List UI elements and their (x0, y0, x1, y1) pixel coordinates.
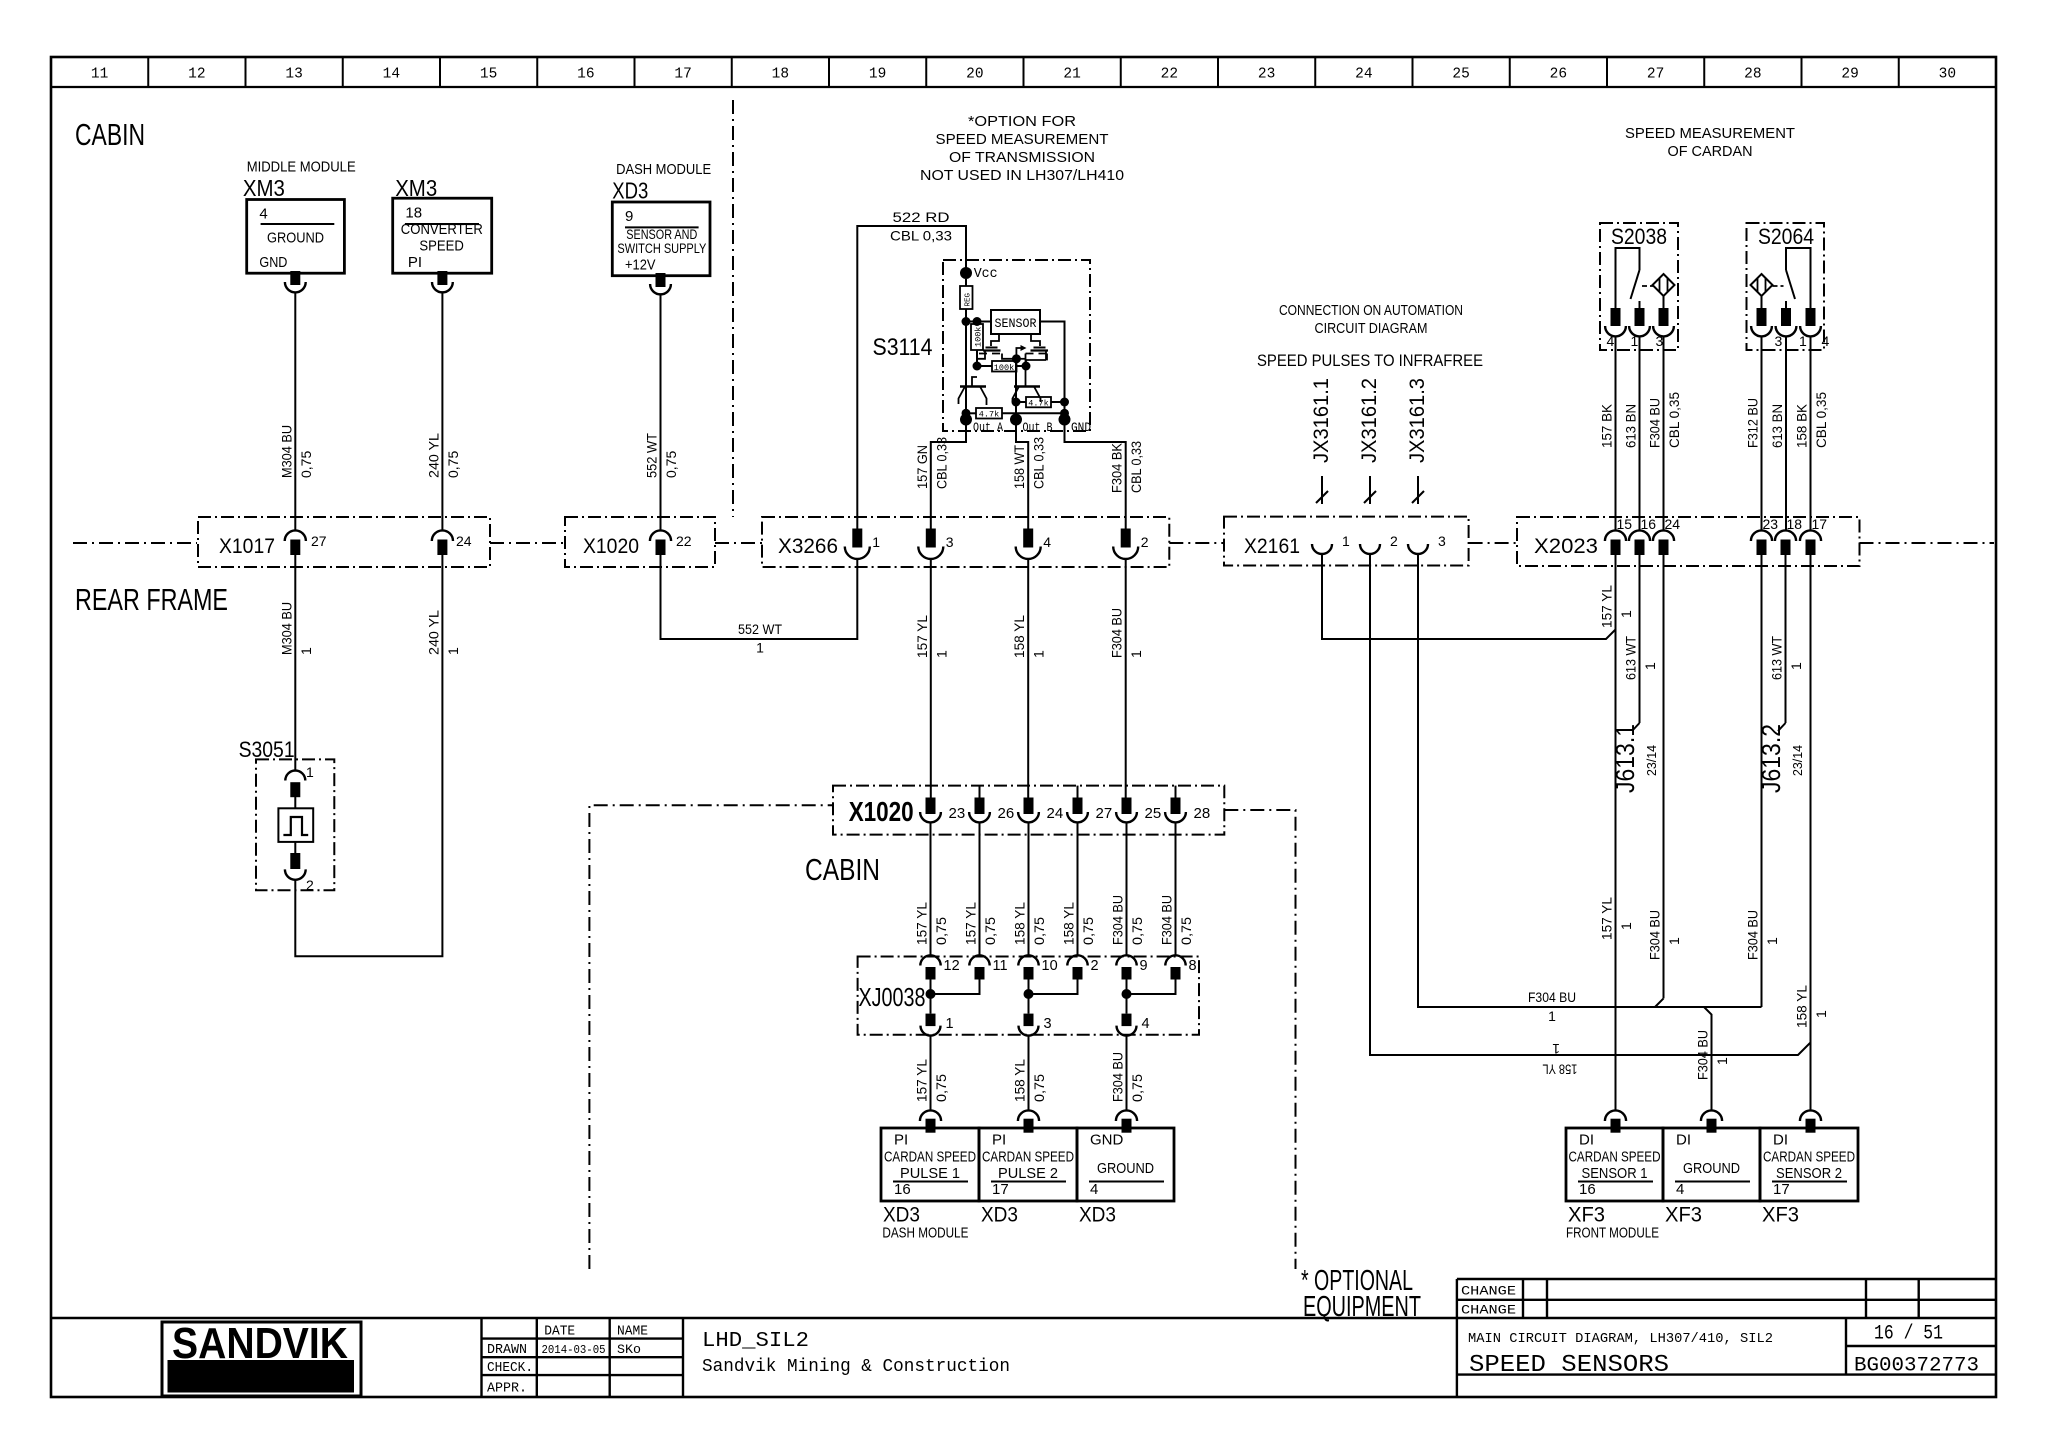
svg-text:F304 BU: F304 BU (1110, 895, 1126, 945)
svg-text:21: 21 (1063, 67, 1080, 83)
pin XJ0038.2 (1067, 955, 1098, 979)
svg-text:XJ0038: XJ0038 (859, 982, 926, 1012)
pin XF3.4 (1701, 1110, 1722, 1121)
svg-text:XD3: XD3 (1079, 1204, 1116, 1227)
svg-text:CBL 0,33: CBL 0,33 (1031, 437, 1047, 489)
svg-text:Out B: Out B (1023, 420, 1053, 435)
svg-text:613 WT: 613 WT (1623, 636, 1639, 680)
svg-text:PI: PI (992, 1132, 1006, 1149)
svg-text:17: 17 (674, 67, 691, 83)
svg-text:SPEED MEASUREMENT: SPEED MEASUREMENT (936, 131, 1109, 148)
svg-text:11: 11 (91, 67, 108, 83)
svg-text:100k: 100k (994, 363, 1014, 373)
svg-text:24: 24 (1665, 516, 1681, 532)
junction XJ0038 bus 12-11 (926, 980, 980, 1014)
svg-text:1: 1 (298, 647, 314, 655)
pin XJ0038.3 (1019, 1014, 1052, 1036)
wire F304 BU 0,75 (X1020 to XJ0038) (1159, 822, 1195, 955)
svg-text:157 YL: 157 YL (914, 902, 930, 945)
svg-text:PULSE 1: PULSE 1 (900, 1165, 960, 1182)
svg-text:F304 BK: F304 BK (1109, 442, 1125, 493)
svg-text:1: 1 (1714, 1057, 1730, 1065)
svg-text:26: 26 (1550, 67, 1567, 83)
svg-text:25: 25 (1452, 67, 1469, 83)
svg-text:SPEED SENSORS: SPEED SENSORS (1469, 1352, 1669, 1379)
svg-text:SWITCH SUPPLY: SWITCH SUPPLY (617, 241, 706, 256)
module XF3 ground (1663, 1128, 1760, 1227)
module XD3 cardan speed pulse 2 (979, 1128, 1077, 1227)
svg-text:240 YL: 240 YL (425, 433, 441, 478)
pin X2161.3 (1408, 533, 1446, 554)
svg-text:158 WT: 158 WT (1011, 445, 1027, 489)
svg-text:SENSOR 2: SENSOR 2 (1776, 1165, 1842, 1182)
svg-text:0,75: 0,75 (1080, 917, 1096, 945)
svg-text:XD3: XD3 (883, 1204, 920, 1227)
module XD3 ground (1077, 1128, 1174, 1227)
svg-text:613 BN: 613 BN (1623, 404, 1639, 448)
svg-text:27: 27 (311, 533, 327, 549)
svg-text:1: 1 (1642, 662, 1658, 670)
svg-text:3: 3 (1044, 1016, 1052, 1032)
svg-text:0,75: 0,75 (445, 451, 461, 478)
svg-text:JX3161.2: JX3161.2 (1358, 378, 1381, 463)
pin S2038.4 (1605, 308, 1626, 349)
svg-text:SPEED MEASUREMENT: SPEED MEASUREMENT (1625, 125, 1795, 142)
svg-text:16: 16 (577, 67, 594, 83)
pin X1020.26 (969, 786, 1014, 823)
svg-text:25: 25 (1145, 805, 1162, 822)
pin X1020.24 (1018, 798, 1063, 823)
svg-text:4: 4 (1822, 333, 1830, 349)
svg-text:LHD_SIL2: LHD_SIL2 (702, 1330, 809, 1353)
svg-text:FRONT MODULE: FRONT MODULE (1566, 1226, 1659, 1242)
wire 240 YL 1 (S3051.2 to X1017.24) (295, 555, 461, 957)
wire 522 RD CBL 0,33 (X3266.1 to S3114 Vcc) (857, 209, 966, 529)
note optional equipment (1301, 1265, 1421, 1323)
switch S2064 contact (1773, 248, 1811, 308)
svg-text:DRAWN: DRAWN (487, 1343, 527, 1358)
connector X2161 (1224, 517, 1469, 566)
pin S2038.3 (1653, 308, 1674, 349)
svg-text:J613.2: J613.2 (1756, 724, 1786, 793)
svg-text:DASH MODULE: DASH MODULE (616, 162, 711, 178)
wire 613 BN (S2038.1 to X2023.16) (1623, 336, 1640, 530)
pin XJ0038.10 (1018, 955, 1057, 979)
svg-text:22: 22 (676, 533, 692, 549)
svg-text:CBL 0,35: CBL 0,35 (1813, 392, 1829, 448)
svg-text:30: 30 (1939, 67, 1956, 83)
wire M304 BU 0,75 (XM3.4 to X1017.27) (294, 292, 296, 530)
svg-text:SPEED: SPEED (419, 237, 464, 254)
pin X1017.27 (285, 530, 327, 555)
pin XD3.16 (920, 1110, 941, 1121)
sensor S3114 outline (873, 260, 1091, 431)
pin X2023.17 (1800, 516, 1827, 555)
svg-text:157 BK: 157 BK (1599, 403, 1615, 448)
pin X2023.18 (1775, 516, 1802, 555)
svg-text:0,75: 0,75 (1178, 917, 1194, 945)
svg-text:3: 3 (1656, 333, 1664, 349)
svg-text:613 WT: 613 WT (1769, 636, 1785, 680)
svg-text:XF3: XF3 (1568, 1204, 1605, 1227)
svg-text:GND: GND (259, 254, 287, 271)
pin XM3.4 (290, 271, 300, 285)
svg-text:DATE: DATE (544, 1325, 575, 1340)
svg-text:158 YL: 158 YL (1061, 902, 1077, 945)
svg-text:SENSOR 1: SENSOR 1 (1582, 1165, 1648, 1182)
note speed measurement of cardan (1625, 125, 1795, 160)
pin X2023.23 (1751, 516, 1778, 555)
svg-text:GROUND: GROUND (1097, 1160, 1154, 1177)
connector XJ0038 (858, 957, 1199, 1035)
svg-text:DASH MODULE: DASH MODULE (882, 1226, 968, 1242)
wire 158 YL 1 (X3266.4 to X1020.24) (1011, 558, 1047, 798)
svg-text:CBL 0,33: CBL 0,33 (1128, 441, 1144, 493)
svg-text:24: 24 (1047, 805, 1064, 822)
svg-text:S3051: S3051 (239, 737, 295, 762)
svg-text:DI: DI (1579, 1132, 1594, 1149)
pin XJ0038.9 (1116, 955, 1147, 979)
svg-text:1: 1 (1548, 1008, 1556, 1024)
svg-text:0,75: 0,75 (933, 1074, 949, 1102)
svg-text:15: 15 (1617, 516, 1633, 532)
svg-text:14: 14 (383, 67, 400, 83)
svg-text:F304 BU: F304 BU (1159, 895, 1175, 945)
svg-text:23/14: 23/14 (1644, 745, 1659, 776)
svg-text:F304 BU: F304 BU (1647, 398, 1663, 448)
wire F304 BK CBL 0,33 (GND to X3266.2) (1065, 420, 1145, 529)
svg-text:JX3161.1: JX3161.1 (1310, 378, 1333, 463)
pin XD3.9 (656, 273, 666, 287)
wire F304 BU CBL 0,35 (S2038.3 to X2023.24) (1647, 336, 1683, 530)
svg-text:18: 18 (405, 204, 422, 221)
pin S2064.4 (1800, 308, 1829, 349)
svg-text:0,75: 0,75 (982, 917, 998, 945)
svg-text:F304 BU: F304 BU (1647, 910, 1663, 960)
pin XF3.16 (1605, 1110, 1626, 1121)
transistor Q2 gate (right FET) (1031, 334, 1049, 360)
net JX3161.2 stub (1358, 378, 1381, 504)
wire 158 WT CBL 0,33 (Out B to X3266.4) (1011, 420, 1047, 529)
node GND (1059, 398, 1092, 435)
svg-text:SENSOR: SENSOR (995, 316, 1037, 331)
pin X1020.28 (1165, 786, 1210, 823)
svg-text:F304 BU: F304 BU (1745, 910, 1761, 960)
wire F304 BU 1 (X3266.2 to X1020.25) (1109, 558, 1145, 798)
svg-text:10: 10 (1042, 958, 1058, 974)
sensor S3051 (239, 737, 335, 890)
wire 157 BK (S2038.4 to X2023.15) (1599, 336, 1616, 530)
svg-text:9: 9 (625, 208, 633, 225)
svg-text:CARDAN SPEED: CARDAN SPEED (1763, 1148, 1855, 1165)
svg-text:DI: DI (1773, 1132, 1788, 1149)
net JX3161.3 stub (1406, 378, 1429, 504)
pin X1020.25 (1116, 798, 1161, 823)
svg-text:XM3: XM3 (243, 175, 285, 201)
svg-text:4.7k: 4.7k (1028, 399, 1048, 409)
wire 158 YL 0,75 (X1020 to XJ0038) (1061, 822, 1097, 955)
svg-text:F304 BU: F304 BU (1109, 608, 1125, 658)
pin XM3.18 (437, 271, 447, 285)
wire 158 BK CBL 0,35 (S2064.4 to X2023.17) (1794, 336, 1830, 530)
svg-text:13: 13 (285, 67, 302, 83)
sensor S2064 inductive element (1751, 274, 1773, 308)
svg-text:23/14: 23/14 (1790, 745, 1805, 776)
wire 158 YL 0,75 (X1020 to XJ0038) (1012, 822, 1048, 955)
pin XJ0038.8 (1165, 955, 1196, 979)
wire 158 YL 0,75 (XJ0038 to XD3) (1012, 1036, 1048, 1111)
svg-text:23: 23 (1258, 67, 1275, 83)
svg-text:522 RD: 522 RD (893, 209, 950, 225)
connector X1020 (cabin top row) (565, 517, 715, 567)
pin XJ0038.4 (1117, 1014, 1150, 1036)
svg-text:CABIN: CABIN (805, 852, 880, 887)
svg-text:158 YL: 158 YL (1011, 615, 1027, 658)
svg-text:SKo: SKo (617, 1342, 641, 1357)
svg-text:CARDAN SPEED: CARDAN SPEED (1569, 1148, 1661, 1165)
svg-text:MIDDLE MODULE: MIDDLE MODULE (247, 160, 356, 176)
svg-text:M304 BU: M304 BU (278, 425, 294, 478)
svg-text:157 YL: 157 YL (914, 615, 930, 658)
module XF3 cardan speed sensor 1 (1566, 1128, 1663, 1227)
pin S2064.3 (1751, 308, 1782, 349)
svg-text:1: 1 (933, 650, 949, 658)
svg-text:CABIN: CABIN (75, 117, 145, 152)
resistor 100k feedback (977, 360, 1046, 373)
svg-text:X2161: X2161 (1244, 535, 1300, 558)
wire 157 YL 0,75 (X1020 to XJ0038) (914, 822, 950, 955)
svg-text:CBL 0,35: CBL 0,35 (1666, 392, 1682, 448)
svg-text:Vcc: Vcc (974, 266, 998, 282)
transistor Q3 (out A) (959, 377, 987, 405)
pin XJ0038.12 (920, 955, 959, 979)
svg-text:CHANGE: CHANGE (1461, 1303, 1516, 1318)
svg-text:1: 1 (946, 1016, 954, 1032)
svg-text:23: 23 (949, 805, 966, 822)
boundary cabin lower-left chain line (589, 805, 833, 1269)
svg-text:1: 1 (1552, 1041, 1560, 1057)
svg-text:X1017: X1017 (219, 535, 275, 558)
node Out B (1010, 360, 1053, 436)
wire 613 BN (S2064.1 to X2023.18) (1769, 336, 1786, 530)
logo SANDVIK (162, 1319, 361, 1396)
svg-text:157 YL: 157 YL (963, 902, 979, 945)
svg-text:28: 28 (1744, 67, 1761, 83)
svg-text:0,75: 0,75 (933, 917, 949, 945)
wire F304 BU 1 (X2161.3 ground rail) (1418, 554, 1762, 1024)
boundary cabin/optional vertical chain line (732, 100, 734, 517)
svg-text:NOT USED IN LH307/LH410: NOT USED IN LH307/LH410 (920, 167, 1124, 184)
svg-text:REAR FRAME: REAR FRAME (75, 582, 228, 617)
pin X2161.1 (1312, 533, 1350, 554)
boundary chain line X2023 to frame (1860, 542, 1995, 544)
svg-text:EQUIPMENT: EQUIPMENT (1303, 1291, 1421, 1323)
svg-text:CHANGE: CHANGE (1461, 1284, 1516, 1299)
svg-text:27: 27 (1647, 67, 1664, 83)
svg-text:GND: GND (1071, 420, 1091, 435)
svg-text:1: 1 (1128, 650, 1144, 658)
svg-text:1: 1 (756, 640, 764, 656)
svg-text:DI: DI (1676, 1132, 1691, 1149)
boundary chain line X1017 to X1020 (490, 542, 565, 544)
svg-text:+12V: +12V (625, 256, 656, 273)
svg-text:1: 1 (1813, 1010, 1829, 1018)
wire 613 WT 1 J613.1 stub (X2023.16) (1610, 555, 1659, 794)
svg-text:157 YL: 157 YL (914, 1059, 930, 1102)
svg-text:PI: PI (408, 254, 422, 271)
svg-text:613 BN: 613 BN (1769, 404, 1785, 448)
svg-text:9: 9 (1140, 958, 1148, 974)
svg-text:PI: PI (894, 1132, 908, 1149)
svg-text:GROUND: GROUND (1683, 1160, 1740, 1177)
svg-text:4: 4 (1607, 333, 1615, 349)
svg-text:19: 19 (869, 67, 886, 83)
svg-text:F304 BU: F304 BU (1110, 1052, 1126, 1102)
svg-text:X3266: X3266 (778, 535, 838, 558)
pin XF3.17 (1800, 1110, 1821, 1121)
wire 157 YL 1 (X2161.1 merge to X2023.15 / XF3 sensor1) (1322, 554, 1634, 1110)
svg-text:GROUND: GROUND (267, 230, 324, 247)
svg-text:S3114: S3114 (873, 334, 933, 361)
svg-text:157 YL: 157 YL (1599, 585, 1615, 628)
sensor S2038 (1600, 223, 1678, 350)
svg-text:1: 1 (1031, 650, 1047, 658)
pin X1017.24 (432, 530, 472, 555)
pin X2161.2 (1360, 533, 1398, 554)
wire 552 WT 1 (X1020.22 to X3266.1) (661, 555, 858, 656)
svg-text:4: 4 (259, 206, 267, 223)
pin X3266.3 (918, 529, 954, 559)
svg-text:OF TRANSMISSION: OF TRANSMISSION (949, 149, 1095, 166)
svg-text:OF CARDAN: OF CARDAN (1668, 143, 1753, 160)
svg-text:CHECK.: CHECK. (487, 1361, 533, 1376)
svg-text:2: 2 (306, 877, 314, 893)
svg-text:1: 1 (1342, 533, 1350, 549)
svg-text:20: 20 (966, 67, 983, 83)
wire F304 BU 0,75 (XJ0038 to XD3) (1110, 1036, 1146, 1111)
svg-text:Sandvik Mining & Construction: Sandvik Mining & Construction (702, 1357, 1010, 1377)
svg-text:F304 BU: F304 BU (1695, 1030, 1711, 1080)
svg-text:XF3: XF3 (1762, 1204, 1799, 1227)
node Vcc (960, 266, 998, 282)
boundary chain line X1020 to X3266 (715, 542, 762, 544)
svg-text:Out A: Out A (973, 420, 1003, 435)
pin X2023.15 (1605, 516, 1632, 555)
svg-text:0,75: 0,75 (1031, 917, 1047, 945)
svg-text:24: 24 (456, 533, 472, 549)
svg-text:158 YL: 158 YL (1012, 1059, 1028, 1102)
boundary cabin lower-right chain line (optional equipment) (1224, 810, 1295, 1269)
wire M304 BU 1 (X1017.27 to S3051.1) (278, 555, 314, 770)
svg-text:11: 11 (993, 958, 1008, 974)
pin X2023.24 (1653, 516, 1680, 555)
svg-text:3: 3 (1438, 533, 1446, 549)
wire 157 YL 1 (X3266.3 to X1020.23) (914, 558, 950, 798)
svg-text:2: 2 (1390, 533, 1398, 549)
junction XJ0038 bus 10-2 (1024, 980, 1078, 1014)
connector X1017 (198, 517, 490, 567)
svg-text:157 YL: 157 YL (1599, 897, 1615, 940)
svg-text:J613.1: J613.1 (1610, 724, 1640, 793)
svg-text:0,75: 0,75 (663, 451, 679, 478)
connector X1020 (cabin lower row) (833, 786, 1224, 835)
pin XJ0038.11 (969, 955, 1007, 979)
wire 157 GN CBL 0,33 (Out A to X3266.3) (914, 420, 966, 529)
svg-text:22: 22 (1161, 67, 1178, 83)
svg-text:1: 1 (1788, 662, 1804, 670)
wire 158 YL 1 (X2023.17 to XF3 sensor2) (1794, 555, 1830, 1111)
svg-text:12: 12 (188, 67, 205, 83)
svg-text:CONVERTER: CONVERTER (401, 221, 483, 238)
svg-text:S2038: S2038 (1611, 224, 1667, 249)
svg-text:0,75: 0,75 (298, 451, 314, 478)
svg-text:16: 16 (894, 1181, 911, 1198)
module XM3 converter speed (393, 175, 492, 273)
svg-text:1: 1 (1618, 610, 1634, 618)
pin S3051.1 (285, 764, 314, 797)
svg-text:0,75: 0,75 (1031, 1074, 1047, 1102)
pin XJ0038.1 (921, 1014, 954, 1036)
node crossover drive lines (979, 345, 1047, 363)
svg-text:16: 16 (1641, 516, 1657, 532)
net JX3161.1 stub (1310, 378, 1333, 504)
svg-text:552 WT: 552 WT (644, 433, 660, 478)
svg-text:16 / 51: 16 / 51 (1874, 1323, 1943, 1346)
junction XJ0038 bus 9-8 (1122, 980, 1176, 1014)
connector X2023 (1517, 517, 1860, 566)
svg-text:29: 29 (1841, 67, 1858, 83)
svg-text:1: 1 (1764, 937, 1780, 945)
wire F304 BU 1 (X2023.24 branch) (1647, 555, 1683, 1008)
component S3051 pulse sender (278, 796, 313, 854)
svg-text:4: 4 (1043, 534, 1051, 550)
wire 240 YL 0,75 (XM3.18 to X1017.24) (441, 292, 443, 530)
svg-text:2: 2 (1091, 958, 1099, 974)
svg-text:JX3161.3: JX3161.3 (1406, 378, 1429, 463)
svg-text:1: 1 (872, 534, 880, 550)
boundary chain line X2161 to X2023 (1469, 542, 1517, 544)
svg-text:CONNECTION ON AUTOMATION: CONNECTION ON AUTOMATION (1279, 303, 1463, 319)
svg-text:23: 23 (1763, 516, 1779, 532)
pin X3266.4 (1016, 529, 1051, 559)
svg-text:M304 BU: M304 BU (278, 602, 294, 655)
svg-text:APPR.: APPR. (487, 1382, 527, 1397)
pin S2064.1 (1776, 308, 1807, 349)
svg-text:SENSOR AND: SENSOR AND (626, 227, 697, 242)
svg-text:4: 4 (1090, 1181, 1098, 1198)
wire F312 BU (S2064.3 to X2023.23) (1745, 336, 1762, 530)
wire 157 YL 0,75 (X1020 to XJ0038) (963, 822, 999, 955)
svg-text:CARDAN SPEED: CARDAN SPEED (982, 1148, 1074, 1165)
svg-text:1: 1 (1618, 922, 1634, 930)
resistor REG (960, 279, 973, 322)
resistor 4.7k out B (1012, 397, 1070, 409)
svg-text:27: 27 (1096, 805, 1113, 822)
svg-text:158 YL: 158 YL (1542, 1062, 1577, 1078)
wire 552 WT 0,75 (XD3.9 to X1020.22) (660, 294, 662, 530)
pin XD3.4 (1116, 1110, 1137, 1121)
module XM3 ground (MIDDLE MODULE) (243, 160, 356, 274)
svg-text:4: 4 (1142, 1016, 1150, 1032)
svg-text:REG: REG (965, 292, 973, 306)
svg-text:SPEED PULSES TO INFRAFREE: SPEED PULSES TO INFRAFREE (1257, 352, 1483, 370)
svg-text:BG00372773: BG00372773 (1854, 1355, 1979, 1378)
note connection on automation circuit diagram (1279, 303, 1463, 337)
wire sensor right to GND rail (1040, 322, 1065, 399)
svg-text:4: 4 (1676, 1181, 1684, 1198)
pin S2038.1 (1629, 308, 1650, 349)
svg-text:0,75: 0,75 (1129, 1074, 1145, 1102)
